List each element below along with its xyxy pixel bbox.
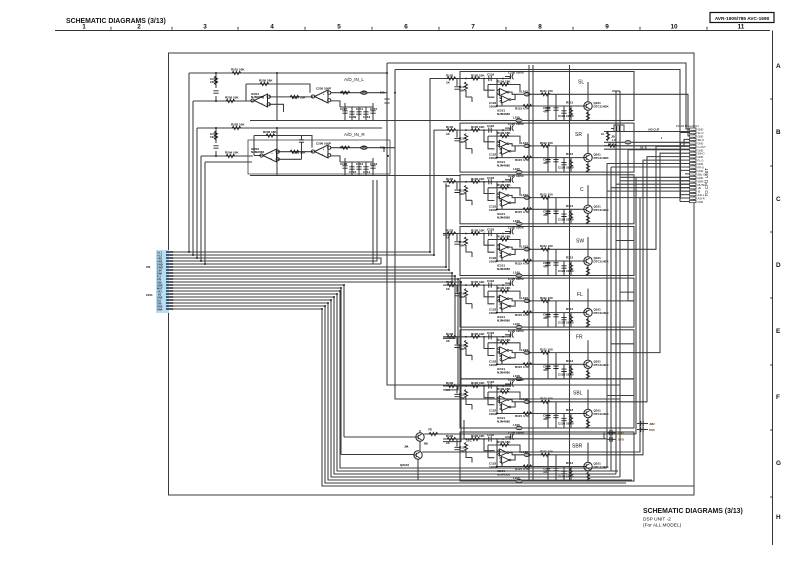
svg-text:TO CPU UNIT: TO CPU UNIT bbox=[704, 168, 709, 197]
svg-text:10/50: 10/50 bbox=[210, 135, 218, 139]
svg-text:C206 100P: C206 100P bbox=[316, 142, 331, 146]
svg-text:L202: L202 bbox=[360, 146, 367, 150]
svg-text:2: 2 bbox=[137, 24, 141, 31]
svg-text:L.R: L.R bbox=[612, 138, 616, 142]
svg-text:(For ALL MODEL): (For ALL MODEL) bbox=[643, 523, 682, 529]
muting transistor Q2101 bbox=[344, 428, 636, 451]
svg-text:R209: R209 bbox=[340, 91, 348, 95]
output run L bbox=[331, 93, 387, 107]
svg-text:B: B bbox=[776, 129, 781, 136]
svg-text:8B: 8B bbox=[424, 442, 429, 446]
svg-text:R204 10K: R204 10K bbox=[225, 151, 239, 155]
feed wires into connector left side bbox=[604, 132, 690, 150]
jumper loop JB2101 bbox=[611, 125, 624, 132]
op-amp IC201c bbox=[260, 149, 279, 162]
svg-text:NJM2068: NJM2068 bbox=[251, 150, 264, 154]
svg-text:DSP UNIT -2: DSP UNIT -2 bbox=[643, 517, 671, 523]
FL output wire bbox=[628, 150, 690, 301]
svg-text:L201: L201 bbox=[360, 91, 367, 95]
svg-text:F: F bbox=[776, 394, 780, 401]
svg-text:GN4: GN4 bbox=[157, 307, 163, 311]
SBL output wire bbox=[634, 157, 690, 402]
wire pin1 bbox=[171, 79, 444, 253]
resistor R211 vertical bbox=[214, 76, 217, 85]
op-amp IC201d bbox=[311, 145, 330, 158]
lower pins feed wires bbox=[607, 177, 690, 191]
resistor R204 bbox=[226, 154, 235, 157]
svg-text:GND: GND bbox=[698, 162, 704, 166]
bead L202 bbox=[361, 146, 367, 149]
svg-text:GND: GND bbox=[698, 169, 704, 173]
input resistor R201 bbox=[232, 71, 241, 74]
svg-text:11: 11 bbox=[738, 24, 745, 31]
op-amp IC201b bbox=[311, 90, 330, 103]
wire pin3 bbox=[171, 258, 382, 264]
svg-text:+B: +B bbox=[698, 186, 702, 190]
bead L201 bbox=[361, 91, 367, 94]
wire pin18 bbox=[171, 303, 633, 480]
resistor R210 bbox=[341, 146, 350, 149]
svg-text:Q2102: Q2102 bbox=[400, 463, 409, 467]
output tap junction bbox=[383, 148, 385, 152]
box around R stage bbox=[248, 140, 390, 174]
ground rail A/D L bbox=[250, 120, 460, 122]
output wires staircase to CPU connector bbox=[607, 94, 690, 455]
diode feed wire bbox=[464, 420, 607, 439]
svg-text:7R: 7R bbox=[428, 428, 433, 432]
muting transistor Q2102 bbox=[341, 198, 640, 480]
channel block SBL bbox=[443, 378, 634, 430]
connector pin name labels bbox=[698, 128, 707, 204]
svg-text:G: G bbox=[776, 460, 781, 467]
feedback resistor R206 bbox=[266, 134, 275, 137]
model number box top right bbox=[710, 13, 774, 23]
svg-text:A: A bbox=[776, 63, 781, 70]
svg-text:7: 7 bbox=[471, 24, 475, 31]
svg-text:SCHEMATIC DIAGRAMS (3/13): SCHEMATIC DIAGRAMS (3/13) bbox=[643, 508, 743, 515]
caps to ground C205-C209 bbox=[342, 111, 347, 113]
fan-out wires from left connector bbox=[171, 73, 695, 486]
svg-text:A2_B: A2_B bbox=[640, 145, 647, 149]
svg-text:C-OUT: C-OUT bbox=[698, 145, 707, 149]
svg-text:4: 4 bbox=[270, 24, 274, 31]
wire pin11 bbox=[171, 282, 462, 442]
channel block SR bbox=[443, 122, 634, 174]
wires from feed buses to connector bbox=[607, 91, 690, 167]
svg-text:SR-O: SR-O bbox=[698, 138, 704, 142]
long vertical bus pair x=529/533 bbox=[387, 63, 690, 480]
cap C203 bbox=[213, 91, 218, 93]
C output wire bbox=[634, 143, 690, 198]
wire pin13 bbox=[171, 288, 342, 455]
interstage wires L bbox=[269, 97, 313, 112]
top bus A/D R to connector bbox=[395, 70, 680, 202]
channel name labels bbox=[572, 80, 584, 450]
svg-text:FR: FR bbox=[576, 335, 583, 341]
svg-text:SBR: SBR bbox=[572, 444, 583, 450]
svg-text:GND: GND bbox=[698, 135, 704, 139]
secondary taps into feed buses bbox=[607, 241, 634, 396]
resistor R212 vertical bbox=[214, 131, 217, 140]
wire pin4 bbox=[171, 180, 378, 261]
svg-text:C211: C211 bbox=[356, 107, 363, 111]
bead L2101 near CPU connector bbox=[625, 141, 631, 144]
svg-text:FL: FL bbox=[577, 292, 583, 298]
svg-text:R206 18K: R206 18K bbox=[263, 130, 277, 134]
svg-text:R202 10K: R202 10K bbox=[231, 123, 245, 127]
svg-text:R207 10K: R207 10K bbox=[292, 96, 306, 100]
svg-text:A/D-CLIP: A/D-CLIP bbox=[648, 127, 660, 131]
schematic outer border bbox=[169, 53, 695, 495]
input resistor R202 bbox=[232, 126, 241, 129]
svg-text:SCHEMATIC DIAGRAMS (3/13): SCHEMATIC DIAGRAMS (3/13) bbox=[66, 18, 166, 25]
svg-text:C213: C213 bbox=[363, 115, 371, 119]
svg-text:GND: GND bbox=[698, 155, 704, 159]
svg-text:1K: 1K bbox=[601, 132, 604, 136]
A/D R tiny labels bbox=[210, 123, 385, 175]
svg-text:9: 9 bbox=[605, 24, 609, 31]
caps to ground C206-C210 bbox=[342, 166, 347, 168]
svg-text:R205 18K: R205 18K bbox=[259, 79, 273, 83]
svg-text:JM.: JM. bbox=[404, 445, 409, 449]
channel block SBR bbox=[443, 431, 634, 483]
svg-text:E: E bbox=[776, 328, 781, 335]
svg-text:CN: CN bbox=[146, 265, 150, 269]
svg-text:C215: C215 bbox=[370, 107, 378, 111]
vertical bias wire R bbox=[276, 128, 278, 176]
svg-text:C207: C207 bbox=[340, 107, 348, 111]
left connector wire tick marks bbox=[171, 251, 174, 310]
collector resistor R2103 bbox=[429, 432, 438, 435]
wire A/D L top bbox=[189, 72, 387, 74]
vertical feed buses x=607..620 bbox=[607, 91, 620, 477]
svg-text:GND: GND bbox=[698, 128, 704, 132]
svg-text:1M2: 1M2 bbox=[618, 431, 624, 435]
wire A/D R in bbox=[201, 155, 253, 157]
bead on riser bbox=[384, 99, 389, 103]
connector body (blue) bbox=[156, 250, 169, 313]
svg-text:SW-O: SW-O bbox=[698, 152, 705, 156]
svg-text:A/D_IN_L: A/D_IN_L bbox=[344, 77, 364, 82]
svg-text:C210: C210 bbox=[349, 170, 357, 174]
channel block FR bbox=[443, 329, 634, 381]
interstage resistor R208 bbox=[290, 150, 299, 153]
decoupling verticals R bbox=[340, 158, 373, 176]
channel block SL bbox=[443, 71, 634, 123]
resistor R2106 vertical bbox=[601, 132, 610, 141]
svg-text:1: 1 bbox=[82, 24, 86, 31]
wire A/D R top bbox=[197, 127, 382, 129]
resistor R2105 bbox=[608, 144, 617, 147]
wire pin6 bbox=[171, 183, 447, 267]
diode D2104 bbox=[637, 427, 655, 432]
junction dots on buses bbox=[188, 72, 462, 310]
feedback wire L bbox=[246, 84, 310, 101]
SR output wire bbox=[634, 139, 690, 146]
top ruler numbers 1-11 bbox=[82, 24, 745, 31]
SBR output wire bbox=[634, 160, 690, 455]
wire pin7 bbox=[171, 235, 450, 270]
svg-text:-B: -B bbox=[698, 190, 701, 194]
FR output wire bbox=[634, 153, 690, 352]
svg-text:1EC: 1EC bbox=[466, 439, 473, 443]
wire A/D L in bbox=[193, 100, 253, 102]
wire pin14 bbox=[171, 291, 608, 468]
svg-text:R203 10K: R203 10K bbox=[225, 96, 239, 100]
svg-text:R210: R210 bbox=[340, 146, 348, 150]
svg-text:AVR-1905/785 AVC-1590: AVR-1905/785 AVC-1590 bbox=[715, 16, 770, 22]
A/D input section R channel bbox=[197, 128, 460, 176]
wire pin2 bbox=[171, 130, 444, 255]
svg-text:1: 1 bbox=[661, 136, 663, 140]
elco C202 bbox=[215, 128, 217, 156]
svg-text:6: 6 bbox=[404, 24, 408, 31]
interstage resistor R207 bbox=[290, 95, 299, 98]
CPU feed labels bbox=[608, 127, 663, 149]
svg-text:SW: SW bbox=[576, 239, 584, 245]
svg-text:A/D_IN_R: A/D_IN_R bbox=[344, 132, 365, 137]
wire pin16 bbox=[171, 297, 617, 474]
svg-text:C208: C208 bbox=[340, 162, 348, 166]
svg-text:2101: 2101 bbox=[146, 293, 153, 297]
top ruler tick marks bbox=[111, 27, 707, 30]
svg-text:C214: C214 bbox=[363, 170, 371, 174]
diode D2102 bbox=[607, 437, 625, 442]
svg-text:SL: SL bbox=[578, 80, 584, 86]
output run R bbox=[331, 148, 395, 162]
svg-text:R201 10K: R201 10K bbox=[231, 68, 245, 72]
wire pin9 bbox=[171, 276, 456, 338]
svg-text:SBL: SBL bbox=[573, 391, 583, 397]
svg-text:P2102 ManuONLY: P2102 ManuONLY bbox=[676, 124, 699, 128]
channel block SW bbox=[443, 226, 634, 278]
connector pins bbox=[166, 251, 171, 310]
channel block C bbox=[443, 174, 634, 226]
channel block FL bbox=[443, 277, 634, 329]
wire pin20 bbox=[171, 309, 695, 486]
svg-text:GND: GND bbox=[698, 200, 704, 204]
ground rail A/D R bbox=[250, 175, 460, 177]
svg-text:10/50: 10/50 bbox=[210, 80, 218, 84]
feedback wire R bbox=[254, 136, 312, 156]
wire pin5 bbox=[171, 180, 374, 264]
feedback resistor R205 bbox=[260, 82, 269, 85]
svg-text:C: C bbox=[580, 187, 584, 193]
svg-text:8: 8 bbox=[538, 24, 542, 31]
wire pin15 bbox=[171, 294, 619, 471]
top ruler line bbox=[55, 30, 770, 32]
diode D2103 bbox=[637, 421, 655, 426]
svg-text:10: 10 bbox=[670, 24, 678, 31]
right ruler line bbox=[772, 31, 774, 546]
svg-text:JM2: JM2 bbox=[649, 422, 655, 426]
TO CPU UNIT connector J101 bbox=[676, 124, 709, 204]
resistor R209 bbox=[341, 91, 350, 94]
svg-text:R208 10K: R208 10K bbox=[292, 151, 306, 155]
wire pin19 bbox=[171, 306, 627, 483]
connector pin labels bbox=[157, 250, 163, 311]
svg-text:3: 3 bbox=[203, 24, 207, 31]
connector stub pins right column bbox=[672, 133, 690, 202]
svg-text:FL-O: FL-O bbox=[698, 159, 704, 163]
svg-text:C209: C209 bbox=[349, 115, 357, 119]
svg-text:PS5: PS5 bbox=[649, 428, 655, 432]
interstage wires R bbox=[278, 136, 313, 160]
elco C201 bbox=[215, 73, 217, 101]
svg-text:JB: JB bbox=[611, 135, 616, 139]
right ruler letters A-H bbox=[776, 63, 781, 521]
svg-text:GND: GND bbox=[698, 176, 704, 180]
op-amp IC201a bbox=[251, 94, 270, 107]
svg-text:NJM2068: NJM2068 bbox=[251, 95, 264, 99]
mute bus riser to connector bbox=[635, 177, 637, 434]
svg-text:5: 5 bbox=[337, 24, 341, 31]
wire pin8 bbox=[171, 273, 453, 287]
svg-text:GND: GND bbox=[698, 148, 704, 152]
riser buses down the middle bbox=[387, 63, 620, 399]
svg-text:SL-O: SL-O bbox=[698, 131, 704, 135]
svg-text:FR-O: FR-O bbox=[698, 166, 704, 170]
SL output wire bbox=[634, 94, 690, 136]
right ruler ticks bbox=[770, 99, 773, 497]
wire pin10 bbox=[171, 279, 459, 390]
wire pin17 bbox=[171, 300, 621, 477]
resistor R203 bbox=[226, 99, 235, 102]
diode D2101 bbox=[607, 430, 624, 435]
decoupling verticals L bbox=[340, 103, 373, 121]
svg-text:C: C bbox=[776, 196, 781, 203]
svg-text:C212: C212 bbox=[356, 162, 364, 166]
svg-text:5YB: 5YB bbox=[618, 438, 625, 442]
svg-text:GND: GND bbox=[698, 141, 704, 145]
cap C204 bbox=[213, 146, 218, 148]
top bus A/D L to connector bbox=[387, 63, 690, 129]
risers from A/D section to fan bbox=[189, 73, 252, 264]
svg-text:C216: C216 bbox=[370, 162, 378, 166]
svg-text:SR: SR bbox=[575, 132, 582, 138]
jumper diode D2105 bbox=[617, 126, 619, 131]
svg-text:H: H bbox=[776, 514, 781, 521]
svg-text:C205 100P: C205 100P bbox=[316, 87, 331, 91]
svg-text:A2_A: A2_A bbox=[608, 142, 615, 146]
SW output wire bbox=[634, 146, 690, 249]
vertical bus x=569 bbox=[569, 65, 571, 480]
A/D L tiny labels bbox=[210, 68, 385, 120]
vertical bias wire L bbox=[276, 73, 278, 121]
wire pin12 bbox=[171, 285, 345, 437]
cap C218 bbox=[299, 140, 304, 142]
svg-text:D: D bbox=[776, 262, 781, 269]
